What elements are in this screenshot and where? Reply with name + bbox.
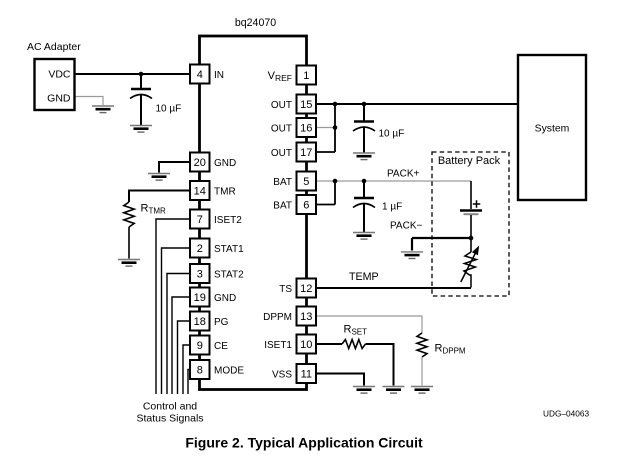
svg-text:VSS: VSS <box>272 369 292 380</box>
svg-text:GND: GND <box>214 293 236 304</box>
svg-text:ISET1: ISET1 <box>264 340 292 351</box>
svg-text:TMR: TMR <box>214 186 236 197</box>
svg-text:MODE: MODE <box>214 365 244 376</box>
svg-text:BAT: BAT <box>273 200 292 211</box>
svg-text:2: 2 <box>197 243 203 255</box>
svg-text:OUT: OUT <box>271 148 292 159</box>
svg-text:10: 10 <box>300 339 312 351</box>
svg-text:6: 6 <box>303 200 309 212</box>
svg-text:GND: GND <box>47 93 71 105</box>
svg-text:15: 15 <box>300 99 312 111</box>
svg-text:Battery Pack: Battery Pack <box>438 155 501 167</box>
svg-text:7: 7 <box>197 214 203 226</box>
svg-text:9: 9 <box>197 340 203 352</box>
svg-text:3: 3 <box>197 269 203 281</box>
svg-text:13: 13 <box>300 311 312 323</box>
svg-text:18: 18 <box>194 316 206 328</box>
svg-text:ISET2: ISET2 <box>214 215 242 226</box>
svg-text:TS: TS <box>279 284 292 295</box>
svg-text:IN: IN <box>214 70 224 81</box>
svg-text:20: 20 <box>194 157 206 169</box>
svg-text:Figure 2. Typical Application: Figure 2. Typical Application Circuit <box>185 435 423 451</box>
svg-text:14: 14 <box>194 186 206 198</box>
svg-text:17: 17 <box>300 147 312 159</box>
svg-text:Status Signals: Status Signals <box>136 413 203 425</box>
svg-text:STAT2: STAT2 <box>214 269 244 280</box>
svg-text:PACK+: PACK+ <box>387 169 419 180</box>
svg-text:4: 4 <box>197 69 203 81</box>
svg-text:10 µF: 10 µF <box>379 129 405 140</box>
svg-text:8: 8 <box>197 365 203 377</box>
svg-text:STAT1: STAT1 <box>214 244 244 255</box>
svg-text:AC Adapter: AC Adapter <box>27 41 81 53</box>
svg-text:12: 12 <box>300 283 312 295</box>
svg-text:PG: PG <box>214 317 229 328</box>
svg-text:OUT: OUT <box>271 123 292 134</box>
svg-text:VDC: VDC <box>48 69 71 81</box>
svg-text:TEMP: TEMP <box>349 271 379 283</box>
svg-text:System: System <box>535 124 570 135</box>
svg-text:11: 11 <box>301 369 312 381</box>
svg-text:1 µF: 1 µF <box>382 202 402 213</box>
svg-text:GND: GND <box>214 158 236 169</box>
svg-text:OUT: OUT <box>271 100 292 111</box>
svg-text:DPPM: DPPM <box>263 312 292 323</box>
svg-text:PACK−: PACK− <box>390 221 422 232</box>
svg-text:Control and: Control and <box>143 401 197 413</box>
svg-text:bq24070: bq24070 <box>235 17 276 29</box>
svg-text:CE: CE <box>214 341 228 352</box>
svg-text:16: 16 <box>300 123 312 135</box>
svg-text:19: 19 <box>194 292 206 304</box>
svg-text:UDG–04063: UDG–04063 <box>543 409 590 419</box>
svg-text:5: 5 <box>303 176 309 188</box>
svg-text:10 µF: 10 µF <box>156 104 182 115</box>
svg-text:BAT: BAT <box>273 177 292 188</box>
svg-text:1: 1 <box>303 70 309 82</box>
